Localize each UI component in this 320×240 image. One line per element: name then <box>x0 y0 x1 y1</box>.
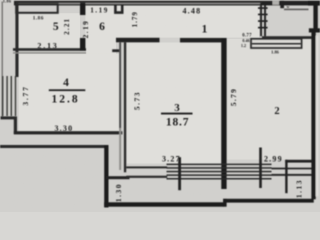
right wall notch stub <box>309 28 320 32</box>
wall room2/room3 <box>221 38 226 189</box>
tick left of room 3 wall <box>112 49 119 52</box>
left facade thin line <box>2 2 3 118</box>
bay bottom wall <box>1 116 18 119</box>
room 3 left wall top cap <box>116 38 160 43</box>
svg-text:3.30: 3.30 <box>54 124 73 133</box>
right loggia top wall <box>285 160 312 163</box>
entry balcony interior <box>252 40 300 47</box>
svg-text:1.86: 1.86 <box>271 49 279 54</box>
svg-text:2.21: 2.21 <box>63 18 71 35</box>
svg-text:1: 1 <box>202 24 208 36</box>
svg-text:1.79: 1.79 <box>131 11 139 27</box>
dim tick between 3.27 and 2.99 <box>178 157 181 190</box>
fraction line room 4 <box>49 89 86 91</box>
svg-text:2.13: 2.13 <box>37 41 58 50</box>
svg-text:1.30: 1.30 <box>114 183 123 202</box>
right exterior wall main <box>311 32 315 199</box>
svg-text:5.73: 5.73 <box>133 91 142 110</box>
room 3 interior <box>127 43 221 164</box>
dim tick left of 2.99 <box>259 148 262 189</box>
room 5 left wall <box>15 3 18 77</box>
wall between room 5 and room 6 (lower) <box>80 38 85 51</box>
bottom wall (right, higher part) <box>223 199 314 203</box>
svg-text:1.13: 1.13 <box>295 179 304 198</box>
svg-text:1.19: 1.19 <box>90 6 109 14</box>
stair wall stub at top <box>280 1 284 8</box>
bottom-left exterior wall vertical <box>104 145 108 208</box>
stair thin line <box>284 9 309 11</box>
right loggia divider wall <box>285 160 287 193</box>
svg-text:3: 3 <box>174 102 180 114</box>
room 5 interior <box>19 13 81 48</box>
fraction line room 3 <box>161 113 193 115</box>
svg-text:5.79: 5.79 <box>229 88 238 106</box>
stair ladder wall right of room 1 <box>260 3 262 36</box>
right wall upper segment <box>308 1 320 6</box>
svg-text:3.27: 3.27 <box>162 155 181 164</box>
entry balcony rail (top right) <box>251 39 302 48</box>
left jog wall down to room4 bottom <box>14 117 17 134</box>
balcony door panel (left segment of band) <box>126 166 167 168</box>
bottom-left exterior wall horizontal <box>0 145 105 148</box>
loggia top-left wall <box>106 176 130 179</box>
vent shaft U in room 6 <box>115 5 122 13</box>
svg-text:6: 6 <box>99 21 105 33</box>
window band room 3 (5 lines) <box>167 164 272 166</box>
vent duct rect in room 5 <box>16 4 58 13</box>
svg-text:4.48: 4.48 <box>182 7 201 16</box>
room 1 interior <box>116 6 260 38</box>
svg-text:3.77: 3.77 <box>21 85 30 105</box>
left bay window (4 lines) <box>2 76 3 116</box>
room 3 left wall (double line, inner) <box>119 42 121 128</box>
room 2 top wall <box>262 36 312 39</box>
svg-text:2.19: 2.19 <box>82 20 90 39</box>
svg-text:1.86: 1.86 <box>33 15 44 21</box>
top exterior wall <box>14 1 320 6</box>
wall room1/room3 right part <box>180 38 227 42</box>
svg-text:2: 2 <box>274 106 279 117</box>
svg-text:4: 4 <box>63 77 69 89</box>
room 4 interior <box>19 54 119 131</box>
svg-text:w: w <box>287 5 290 9</box>
wall between room 5 and room 4 <box>13 48 86 51</box>
room 2 interior <box>227 39 311 160</box>
room 3 left wall (double line, outer) <box>124 42 126 172</box>
svg-text:1.86: 1.86 <box>3 0 12 4</box>
room 6 interior <box>85 5 116 49</box>
svg-text:12.8: 12.8 <box>52 93 80 105</box>
svg-text:18.7: 18.7 <box>166 117 189 129</box>
svg-text:2.99: 2.99 <box>264 155 283 164</box>
svg-text:5: 5 <box>53 21 59 33</box>
doorway room6-room4 <box>86 48 116 54</box>
wall between room 5 and room 6 (upper) <box>80 3 85 15</box>
svg-text:1.2: 1.2 <box>241 43 246 48</box>
bottom wall (left, lower part) <box>104 202 224 206</box>
room 4 bottom wall <box>14 131 123 134</box>
right door panel segment of band <box>272 168 312 170</box>
